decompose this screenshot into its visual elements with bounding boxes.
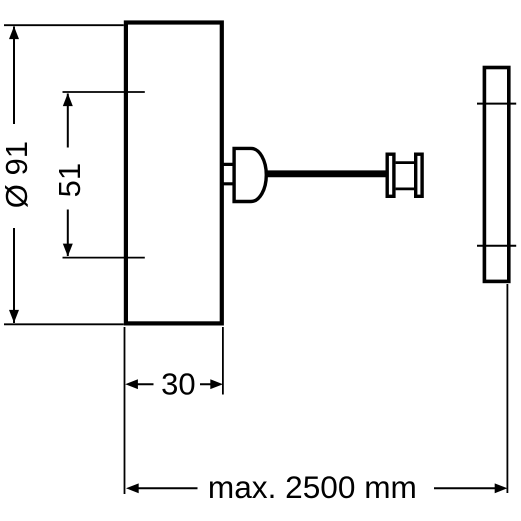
dimension line 51 [67,94,69,257]
plug connecting lines [396,163,414,189]
extension line right (2500) [506,284,508,493]
plate tick lower [477,245,516,247]
plate tick upper [477,103,516,105]
dimension line max 2500 [137,487,496,489]
svg-text:max. 2500 mm: max. 2500 mm [208,469,417,505]
arrow up (Ø91) [9,26,19,39]
arrow right (30) [210,379,223,389]
svg-text:Ø 91: Ø 91 [0,141,34,208]
arrow right (2500) [495,483,508,493]
arrow up (51) [63,93,73,106]
dimension line 30 [137,383,212,385]
plug right bar [416,154,422,196]
extension line left (30 / 2500) [124,327,126,494]
extension line right (30) [222,327,224,395]
extension line top (51) [63,91,145,93]
wall plate [484,68,508,282]
arrow left (2500) [126,483,139,493]
extension line top (Ø91) [4,24,124,26]
arrow left (30) [125,379,138,389]
device body rectangle [126,23,222,324]
extension line bottom (51) [63,257,145,259]
ball joint dome [234,148,266,201]
plug left bar [387,154,394,196]
arrow down (Ø91) [9,310,19,323]
ball joint neck lines [223,164,233,183]
svg-text:30: 30 [161,367,195,402]
svg-text:51: 51 [52,163,87,197]
arrow down (51) [63,244,73,257]
dimension line Ø91 [13,27,15,324]
extension line bottom (Ø91) [4,323,124,325]
rod [265,170,390,177]
